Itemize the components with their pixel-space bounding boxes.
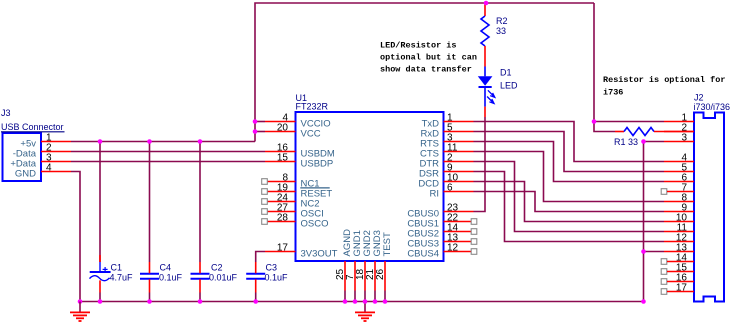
wire VCC link xyxy=(255,131,265,133)
wire J3 GND down to ground bus xyxy=(71,172,80,302)
U1 part number FT232R xyxy=(296,102,329,112)
svg-text:J2: J2 xyxy=(694,93,704,103)
J2 pin 13 xyxy=(664,243,694,254)
J3 pin 3 (+Data) xyxy=(10,153,71,170)
U1 pin 16 (USBDM) xyxy=(265,143,335,160)
resistor R2 xyxy=(481,3,508,67)
svg-text:33: 33 xyxy=(496,26,506,36)
svg-text:C1: C1 xyxy=(111,263,123,273)
connector J2 box xyxy=(694,113,724,302)
U1 pin 14 (CBUS2) xyxy=(407,223,476,240)
J2 pin 4 xyxy=(664,153,694,164)
wire CTS to J2 pin 8 xyxy=(474,152,665,202)
U1 pin 19 (RESET) xyxy=(262,183,333,200)
svg-text:4: 4 xyxy=(46,163,52,174)
J2 pin 1 xyxy=(664,113,694,124)
J3 pin 4 (GND) xyxy=(15,163,71,180)
annotation LED/resistor note xyxy=(380,41,477,75)
J2 pin 7 xyxy=(661,183,694,195)
J2 pin 15 xyxy=(661,263,694,275)
svg-text:R2: R2 xyxy=(496,16,508,26)
J3 value label USB Connector xyxy=(1,122,65,132)
svg-text:J3: J3 xyxy=(1,108,11,118)
capacitor C2 xyxy=(191,262,238,302)
svg-text:0.1uF: 0.1uF xyxy=(265,273,289,283)
wire DCD to J2 pin 10 xyxy=(474,182,665,222)
U1 pin 3 (RTS) xyxy=(420,133,473,150)
U1 pin 24 (NC2) xyxy=(262,193,320,210)
J2 pin 14 xyxy=(661,253,694,265)
svg-text:optional but it can: optional but it can xyxy=(380,53,477,63)
wire RI to J2 pin 9 xyxy=(474,192,665,212)
junction +5V/C2 xyxy=(198,139,203,144)
junction C3/ground bus xyxy=(253,299,258,304)
U1 pin 26 (TEST) xyxy=(375,232,393,301)
junction +5V/VCC xyxy=(253,129,258,134)
svg-text:USB Connector: USB Connector xyxy=(1,122,64,132)
U1 pin 7 (GND1) xyxy=(345,230,363,301)
wire +5V to J2 pin 1 xyxy=(594,121,664,123)
svg-text:Resistor is optional for: Resistor is optional for xyxy=(603,75,725,85)
U1 pin 11 (CTS) xyxy=(420,143,474,160)
J2 pin 17 xyxy=(661,283,694,295)
wire RXD to J2 pin 5 xyxy=(474,132,665,172)
wire ground riser to J2.3 xyxy=(643,142,645,302)
svg-text:FT232R: FT232R xyxy=(296,102,329,112)
ground symbol right xyxy=(355,302,375,322)
U1 pin 22 (CBUS1) xyxy=(407,213,476,230)
connector J3 box xyxy=(3,133,42,181)
annotation resistor note xyxy=(603,75,725,97)
U1 pin 17 (3V3OUT) xyxy=(265,243,338,260)
junction GND riser/ground bus xyxy=(641,299,646,304)
junction TEST/ground bus xyxy=(383,299,388,304)
wire to J2 pin 3 xyxy=(644,141,665,143)
junction GND1/ground bus xyxy=(353,299,358,304)
U1 pin 13 (CBUS3) xyxy=(407,233,476,250)
U1 pin 15 (USBDP) xyxy=(265,153,333,170)
wire TXD to J2 pin 4 xyxy=(474,122,665,162)
wire C4 tap from +5V xyxy=(149,142,151,263)
op-amp U1 box xyxy=(296,112,444,261)
resistor R1 xyxy=(614,128,694,147)
junction GND riser/J2.13 xyxy=(641,249,646,254)
svg-text:0.1uF: 0.1uF xyxy=(159,273,183,283)
junction C1/ground bus xyxy=(98,299,103,304)
J2 pin 9 xyxy=(664,203,694,214)
J3 reference designator xyxy=(1,108,11,118)
J2 pin 3 xyxy=(664,133,694,144)
wire RTS to J2 pin 6 xyxy=(474,142,665,182)
U1 pin 12 (CBUS4) xyxy=(407,243,476,260)
capacitor C4 xyxy=(140,262,183,302)
U1 pin 18 (GND2) xyxy=(355,230,373,301)
svg-text:USBDP: USBDP xyxy=(301,159,334,170)
LED D1 xyxy=(478,67,518,107)
wire 3V3OUT to C3 xyxy=(256,252,265,263)
svg-text:LED/Resistor is: LED/Resistor is xyxy=(380,41,457,51)
J3 pin 2 (-Data) xyxy=(13,143,71,160)
J2 pin 8 xyxy=(664,193,694,204)
ground bus xyxy=(80,301,644,303)
U1 pin 28 (OSCO) xyxy=(262,213,329,230)
wire +5V riser and top bus xyxy=(255,3,594,142)
U1 pin 25 (AGND) xyxy=(335,229,353,302)
svg-text:R1 33: R1 33 xyxy=(614,137,638,147)
wire LED cathode to CBUS0 xyxy=(474,107,486,212)
svg-text:GND: GND xyxy=(15,168,36,179)
J2 pin 5 xyxy=(664,163,694,174)
svg-text:4.7uF: 4.7uF xyxy=(110,273,134,283)
svg-text:26: 26 xyxy=(375,268,386,280)
wire DSR to J2 pin 12 xyxy=(474,172,665,242)
J2 pin 12 xyxy=(664,233,694,244)
U1 pin 2 (DTR) xyxy=(419,153,473,170)
wire VCCIO link xyxy=(255,121,265,123)
U1 pin 21 (GND3) xyxy=(365,230,383,301)
J2 pin 6 xyxy=(664,173,694,184)
svg-text:D1: D1 xyxy=(500,68,512,78)
J3 pin 1 (+5v) xyxy=(20,133,71,150)
capacitor C1 xyxy=(90,255,134,302)
U1 pin 5 (RxD) xyxy=(421,123,474,140)
J2 pin 11 xyxy=(664,223,694,234)
junction GND2/ground bus xyxy=(363,299,368,304)
junction C2/ground bus xyxy=(198,299,203,304)
U1 reference designator xyxy=(296,93,308,103)
U1 pin 10 (DCD) xyxy=(418,173,473,190)
junction +5V/J2.1 xyxy=(592,119,597,124)
U1 pin 6 (RI) xyxy=(430,183,474,200)
wire -Data to USBDM xyxy=(71,151,265,153)
svg-text:show data transfer: show data transfer xyxy=(380,65,472,75)
svg-text:3V3OUT: 3V3OUT xyxy=(301,249,338,260)
svg-text:i736: i736 xyxy=(603,88,623,98)
junction +5V/C4 xyxy=(147,139,152,144)
U1 pin 4 (VCCIO) xyxy=(265,113,331,130)
svg-text:C4: C4 xyxy=(160,263,172,273)
J2 reference designator xyxy=(694,93,704,103)
capacitor C3 xyxy=(246,262,288,302)
svg-text:RI: RI xyxy=(430,189,440,200)
wire DTR to J2 pin 11 xyxy=(474,162,665,232)
J2 pin 16 xyxy=(661,273,694,285)
J2 value label i730/i736 xyxy=(694,102,730,112)
U1 pin 20 (VCC) xyxy=(265,123,321,140)
J2 pin 10 xyxy=(664,213,694,224)
svg-text:LED: LED xyxy=(500,81,518,91)
wire +5V drop to J2.1 xyxy=(594,3,615,132)
ground symbol left xyxy=(70,302,90,322)
junction +5V/C1 xyxy=(98,139,103,144)
junction GND3/ground bus xyxy=(373,299,378,304)
U1 pin 1 (TxD) xyxy=(422,113,474,130)
wire C1 tap from +5V xyxy=(99,142,101,263)
wire +Data to USBDP xyxy=(71,161,265,163)
wire C2 tap from +5V xyxy=(199,142,201,263)
U1 pin 27 (OSCI) xyxy=(262,203,324,220)
J2 pin 2 xyxy=(664,123,694,134)
svg-text:VCC: VCC xyxy=(301,129,321,140)
junction top bus/R2 xyxy=(484,1,489,6)
svg-text:OSCO: OSCO xyxy=(301,219,329,230)
junction AGND/ground bus xyxy=(343,299,348,304)
svg-text:TEST: TEST xyxy=(382,232,393,256)
svg-text:C2: C2 xyxy=(211,263,223,273)
svg-text:C3: C3 xyxy=(266,263,278,273)
wire +5V from J3.1 to riser xyxy=(71,141,255,143)
U1 pin 8 (NC1) xyxy=(262,173,320,190)
wire to J2 pin 13 xyxy=(644,251,665,253)
U1 pin 9 (DSR) xyxy=(419,163,474,180)
svg-text:CBUS4: CBUS4 xyxy=(407,249,439,260)
svg-text:0.01uF: 0.01uF xyxy=(209,273,238,283)
junction GND wire/bus xyxy=(78,299,83,304)
junction +5V/VCCIO xyxy=(253,119,258,124)
junction C4/ground bus xyxy=(147,299,152,304)
junction GND riser top xyxy=(641,139,646,144)
U1 pin 23 (CBUS0) xyxy=(407,203,473,220)
svg-text:i730/i736: i730/i736 xyxy=(694,102,730,112)
